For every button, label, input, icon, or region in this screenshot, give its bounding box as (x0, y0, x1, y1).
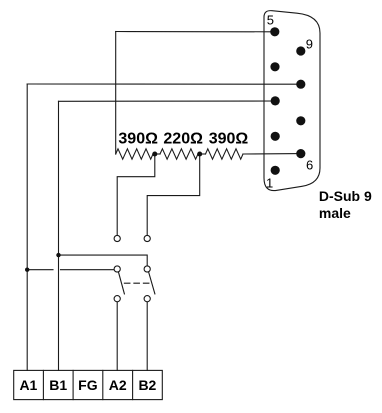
svg-text:390Ω: 390Ω (209, 131, 249, 148)
terminal divider B1/FG (72, 370, 74, 399)
wire R3 to pin 6 (243, 153, 301, 155)
svg-text:A1: A1 (19, 377, 37, 393)
svg-text:FG: FG (78, 377, 98, 393)
connector J1 D-Sub 9 male outline (264, 11, 320, 191)
link contact circle L1 (114, 235, 120, 241)
pin 1 (271, 166, 280, 175)
junction dot R2/R3 node (197, 152, 202, 157)
svg-text:male: male (319, 205, 351, 221)
terminal divider A1/B1 (42, 370, 44, 399)
wire B1 net vertical bus (58, 101, 60, 370)
switch S1a lower contact (114, 296, 120, 302)
wire B1 net horizontal to pin 3 (59, 100, 276, 102)
wire A1 net horizontal to pin 8 (27, 83, 301, 85)
wire R2 to R3 (198, 153, 206, 155)
junction dot B1 branch (56, 253, 60, 257)
wire R1 to R2 (153, 153, 160, 155)
switch S1b upper contact (144, 266, 150, 272)
resistor R2 220Ω (160, 149, 198, 159)
svg-text:1: 1 (266, 175, 273, 190)
junction dot R1/R2 node (152, 152, 157, 157)
svg-text:B1: B1 (49, 377, 67, 393)
terminal divider FG/A2 (102, 370, 104, 399)
pin 8 (296, 80, 305, 89)
switch gang link (dashed) (124, 282, 152, 284)
wire A1 branch to switch S1a (left of hop gap) (27, 269, 53, 271)
svg-text:D-Sub 9: D-Sub 9 (319, 188, 372, 204)
pin 9 (296, 46, 305, 55)
wire pin5 horizontal to pin 5 (116, 31, 275, 33)
wire junction1 down jog to link contact (117, 154, 155, 235)
wire pin5 vertical (115, 32, 117, 155)
resistor R1 390Ω (116, 149, 153, 159)
svg-text:5: 5 (267, 13, 274, 28)
pin 4 (270, 62, 279, 71)
svg-text:390Ω: 390Ω (118, 131, 158, 148)
wire B1 branch to switch S1b (59, 255, 148, 266)
svg-text:B2: B2 (138, 377, 156, 393)
wire junction2 down jog to link contact (147, 154, 200, 235)
wire B2 terminal riser (146, 302, 148, 371)
pin 6 (296, 149, 305, 158)
switch S1b lower contact (144, 296, 150, 302)
pin 3 (271, 96, 280, 105)
wire A2 terminal riser (116, 302, 118, 371)
switch S1b lever (149, 272, 155, 294)
svg-text:220Ω: 220Ω (163, 131, 203, 148)
link contact circle L2 (144, 235, 150, 241)
wire A1 net vertical bus (26, 84, 28, 370)
svg-text:9: 9 (306, 36, 313, 51)
pin 2 (271, 132, 280, 141)
pin 7 (296, 116, 305, 125)
resistor R3 390Ω (206, 149, 244, 159)
junction dot A1 branch (25, 268, 29, 272)
svg-text:A2: A2 (109, 377, 127, 393)
pin 5 (270, 27, 279, 36)
svg-text:6: 6 (306, 158, 313, 173)
terminal divider A2/B2 (132, 370, 134, 399)
wire A1 branch to switch S1a (right of hop gap) (61, 269, 115, 271)
switch S1a lever (119, 272, 125, 294)
switch S1a upper contact (114, 266, 120, 272)
terminal block outline (14, 370, 163, 399)
